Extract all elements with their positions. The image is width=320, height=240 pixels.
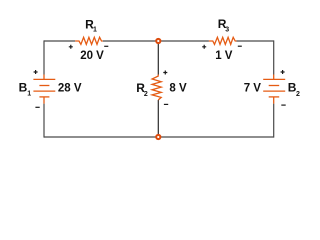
svg-text:1 V: 1 V [215,50,233,62]
svg-text:20 V: 20 V [80,50,104,62]
svg-text:8 V: 8 V [169,82,187,94]
svg-text:1: 1 [27,91,31,98]
svg-text:3: 3 [225,26,229,33]
svg-text:2: 2 [144,91,148,98]
svg-text:2: 2 [296,91,300,98]
svg-text:7 V: 7 V [244,82,262,94]
svg-text:28 V: 28 V [58,82,82,94]
svg-text:1: 1 [93,27,97,34]
